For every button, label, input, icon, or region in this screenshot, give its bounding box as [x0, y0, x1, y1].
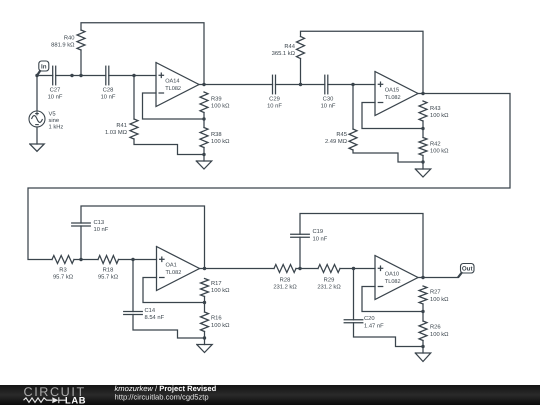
- svg-text:R16: R16: [211, 315, 222, 322]
- svg-text:C30: C30: [323, 96, 334, 103]
- svg-text:95.7 kΩ: 95.7 kΩ: [53, 274, 74, 281]
- svg-text:R44: R44: [284, 44, 295, 50]
- svg-text:R26: R26: [430, 324, 441, 331]
- svg-text:R18: R18: [103, 267, 114, 274]
- svg-text:C19: C19: [313, 228, 324, 235]
- svg-text:C29: C29: [269, 96, 280, 103]
- svg-text:R27: R27: [430, 289, 441, 296]
- svg-text:C27: C27: [50, 87, 61, 94]
- svg-text:sine: sine: [49, 117, 60, 124]
- svg-text:V5: V5: [49, 112, 56, 118]
- svg-text:100 kΩ: 100 kΩ: [211, 138, 230, 145]
- svg-text:10 nF: 10 nF: [101, 94, 116, 101]
- svg-text:TL082: TL082: [165, 86, 181, 92]
- svg-text:1.47 nF: 1.47 nF: [364, 323, 384, 329]
- svg-text:R45: R45: [336, 132, 347, 138]
- svg-text:10 nF: 10 nF: [267, 103, 282, 110]
- svg-text:LAB: LAB: [65, 395, 86, 405]
- svg-text:R38: R38: [211, 131, 222, 138]
- svg-text:95.7 kΩ: 95.7 kΩ: [98, 274, 119, 281]
- svg-text:10 nF: 10 nF: [48, 94, 63, 101]
- svg-text:Out: Out: [462, 266, 473, 273]
- svg-text:2.49 MΩ: 2.49 MΩ: [325, 138, 348, 145]
- svg-text:TL082: TL082: [385, 279, 401, 285]
- svg-text:10 nF: 10 nF: [94, 226, 109, 233]
- svg-text:100 kΩ: 100 kΩ: [211, 103, 230, 110]
- svg-text:100 kΩ: 100 kΩ: [430, 331, 449, 338]
- svg-text:In: In: [41, 63, 47, 70]
- svg-text:C13: C13: [94, 219, 105, 226]
- svg-text:R3: R3: [59, 267, 66, 274]
- svg-text:http://circuitlab.com/cgd5ztp: http://circuitlab.com/cgd5ztp: [115, 392, 209, 401]
- svg-text:10 nF: 10 nF: [321, 103, 336, 110]
- svg-text:TL082: TL082: [166, 270, 182, 276]
- svg-text:100 kΩ: 100 kΩ: [430, 296, 449, 303]
- svg-text:100 kΩ: 100 kΩ: [211, 287, 230, 294]
- svg-text:1.03 MΩ: 1.03 MΩ: [105, 129, 128, 136]
- svg-text:R39: R39: [211, 96, 222, 103]
- svg-text:R42: R42: [430, 140, 441, 147]
- svg-text:100 kΩ: 100 kΩ: [430, 112, 449, 119]
- svg-text:231.2 kΩ: 231.2 kΩ: [317, 284, 341, 291]
- svg-text:10 nF: 10 nF: [313, 235, 328, 242]
- svg-text:R41: R41: [116, 123, 127, 129]
- svg-text:R17: R17: [211, 281, 222, 287]
- svg-text:R29: R29: [324, 277, 335, 284]
- svg-text:C28: C28: [103, 87, 114, 94]
- svg-text:R28: R28: [280, 277, 291, 284]
- svg-text:OA10: OA10: [385, 272, 399, 278]
- svg-text:881.9 kΩ: 881.9 kΩ: [51, 42, 75, 49]
- svg-text:OA15: OA15: [385, 88, 399, 94]
- svg-text:100 kΩ: 100 kΩ: [211, 322, 230, 329]
- svg-text:100 kΩ: 100 kΩ: [430, 148, 449, 155]
- svg-text:OA1: OA1: [166, 263, 177, 269]
- svg-text:C14: C14: [145, 307, 156, 314]
- svg-text:365.1 kΩ: 365.1 kΩ: [272, 50, 296, 57]
- svg-text:R43: R43: [430, 105, 441, 112]
- svg-text:1 kHz: 1 kHz: [49, 123, 64, 130]
- svg-text:OA14: OA14: [165, 79, 179, 85]
- svg-text:R40: R40: [64, 35, 75, 42]
- svg-text:231.2 kΩ: 231.2 kΩ: [273, 284, 297, 291]
- svg-text:8.54 nF: 8.54 nF: [145, 314, 165, 321]
- svg-text:C20: C20: [364, 315, 375, 322]
- svg-text:TL082: TL082: [385, 95, 401, 101]
